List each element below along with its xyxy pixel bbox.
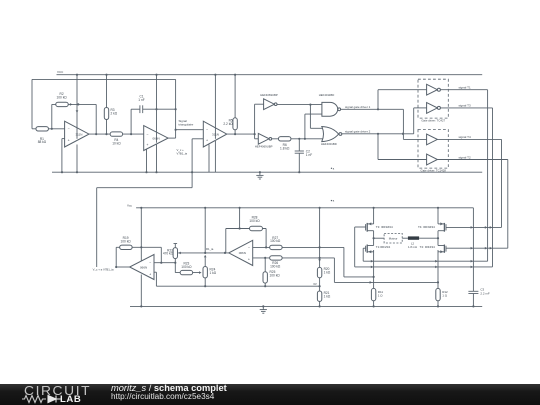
svg-text:100 kΩ: 100 kΩ [270,264,281,268]
svg-text:6V: 6V [313,282,317,286]
svg-text:1 Ω: 1 Ω [378,293,384,297]
svg-text:+: + [149,273,151,277]
svg-text:2.2 kΩ: 2.2 kΩ [223,122,233,126]
svg-text:R1_ia: R1_ia [206,247,214,251]
svg-text:100 kΩ: 100 kΩ [249,219,260,223]
svg-text:T1:IRFZ34: T1:IRFZ34 [376,245,391,249]
svg-text:1 kΩ: 1 kΩ [324,294,331,298]
svg-text:HEF4011BD: HEF4011BD [319,93,335,97]
svg-text:+: + [68,138,70,142]
svg-text:88 kΩ: 88 kΩ [38,140,47,144]
svg-text:signal T1: signal T1 [459,86,471,90]
svg-text:2 kΩ: 2 kΩ [111,111,118,115]
svg-text:VCC: VCC [57,70,64,74]
svg-text:V_c + ≡ V7B1_ia: V_c + ≡ V7B1_ia [93,267,114,271]
svg-text:1 nF: 1 nF [138,98,144,102]
svg-text:triangulaire: triangulaire [179,122,194,126]
svg-text:066N: 066N [140,265,147,269]
svg-text:100 kΩ: 100 kΩ [57,95,68,99]
svg-text:T2: IRFZ34: T2: IRFZ34 [420,245,436,249]
svg-text:signal T2: signal T2 [459,155,471,159]
svg-text:100 kΩ: 100 kΩ [270,239,281,243]
svg-text:100 kΩ: 100 kΩ [121,240,132,244]
svg-text:066N: 066N [239,251,246,255]
svg-text:066N: 066N [153,136,160,140]
svg-text:100 kΩ: 100 kΩ [270,274,281,278]
svg-text:signal gate driver 2: signal gate driver 2 [345,129,371,133]
svg-text:signal T3: signal T3 [459,104,471,108]
svg-text:V7B1_ia: V7B1_ia [177,152,188,156]
svg-text:a: a [333,200,335,203]
svg-text:+: + [146,143,148,147]
svg-text:−: − [146,132,148,136]
svg-text:311N: 311N [76,132,83,136]
svg-text:T3: IRF9Z34: T3: IRF9Z34 [376,225,393,229]
svg-text:−: − [149,261,151,265]
svg-text:HEF4069UBP: HEF4069UBP [255,145,273,149]
svg-text:−: − [206,128,208,132]
svg-text:10 kΩ: 10 kΩ [112,141,121,145]
svg-text:2.2 mF: 2.2 mF [480,291,490,295]
svg-text:−: − [68,127,70,131]
svg-text:HEF4069UBP: HEF4069UBP [260,93,278,97]
svg-text:Vcc: Vcc [127,204,133,208]
svg-text:+: + [206,139,208,143]
svg-text:1.8 mH: 1.8 mH [408,245,417,249]
svg-text:311N: 311N [212,132,219,136]
svg-text:1.8 kΩ: 1.8 kΩ [280,147,290,151]
svg-text:100 kΩ: 100 kΩ [181,265,192,269]
svg-text:a: a [333,167,335,170]
svg-text:Moteur: Moteur [389,237,398,241]
svg-text:+: + [248,257,250,261]
svg-text:1 kΩ: 1 kΩ [324,271,331,275]
svg-text:1 nF: 1 nF [306,153,312,157]
svg-text:signal T4: signal T4 [459,135,471,139]
svg-text:1 kΩ: 1 kΩ [210,271,217,275]
svg-text:470 kΩ: 470 kΩ [163,252,174,256]
svg-text:Gate driver: TC427: Gate driver: TC427 [421,118,445,122]
svg-text:1 Ω: 1 Ω [442,293,448,297]
svg-text:Gate driver: TC1428: Gate driver: TC1428 [421,168,447,172]
svg-text:−: − [248,246,250,250]
svg-text:T4: IRF9Z34: T4: IRF9Z34 [418,225,435,229]
svg-text:signal gate driver 1: signal gate driver 1 [345,105,371,109]
svg-text:HEF4001BD: HEF4001BD [321,142,337,146]
